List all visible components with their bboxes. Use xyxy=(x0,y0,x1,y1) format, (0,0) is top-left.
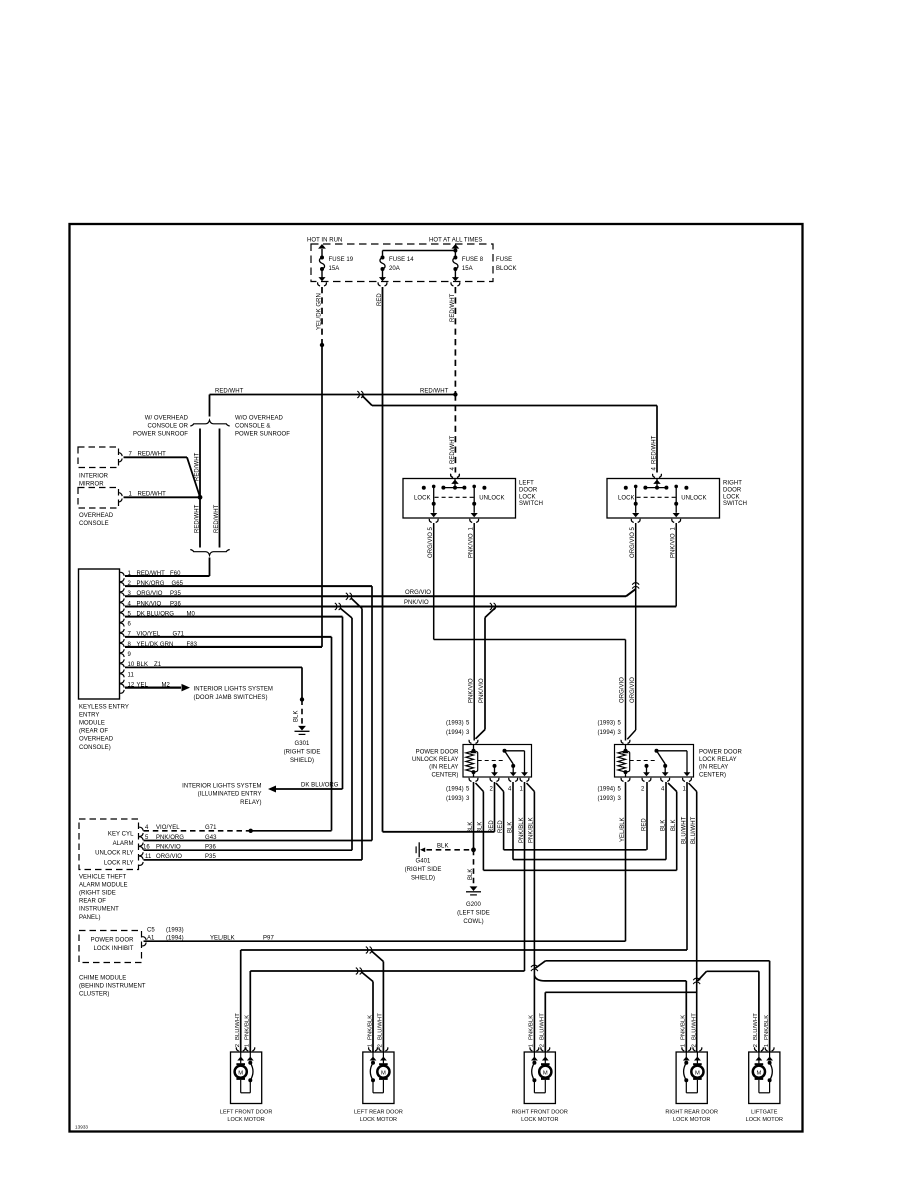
svg-text:(1994): (1994) xyxy=(166,936,184,942)
splice node on YEL/DK GRN xyxy=(320,343,324,347)
svg-text:PNK/VIO: PNK/VIO xyxy=(404,600,429,606)
svg-text:LOCK MOTOR: LOCK MOTOR xyxy=(746,1117,783,1123)
wire BLK lock pin4 branch xyxy=(668,783,677,792)
svg-text:M: M xyxy=(756,1070,761,1076)
wire keyless pin2 PNK/ORG to theft alarm pin5 xyxy=(125,585,372,587)
wire BLK lock pin4 xyxy=(665,782,667,860)
svg-text:ALARM MODULE: ALARM MODULE xyxy=(79,883,128,889)
relay pin 2 contact xyxy=(493,764,497,768)
switch common bar xyxy=(443,487,464,489)
svg-text:BLU/WHT: BLU/WHT xyxy=(691,816,697,844)
wire RED/WHT branch to right door lock switch xyxy=(362,396,372,406)
svg-text:G301: G301 xyxy=(295,741,310,747)
svg-text:1: 1 xyxy=(367,1044,373,1047)
svg-text:16: 16 xyxy=(143,844,150,850)
splice node BLK ground xyxy=(471,847,476,852)
wire RED/WHT horizontal to consoles xyxy=(210,394,456,396)
wire BLU/WHT lock pin1 branch to right rear motor xyxy=(689,783,697,792)
svg-text:PNK/BLK: PNK/BLK xyxy=(245,1015,251,1040)
svg-text:BLK: BLK xyxy=(478,822,484,834)
wire BLK dashed to G200 xyxy=(473,850,475,886)
motor entry connectors xyxy=(530,1047,532,1051)
svg-text:ORG/VIO: ORG/VIO xyxy=(630,677,636,703)
wire RED/WHT right branch xyxy=(219,429,221,548)
svg-text:SWITCH: SWITCH xyxy=(519,501,543,507)
svg-text:RELAY): RELAY) xyxy=(240,800,262,806)
left door lock switch box xyxy=(403,479,516,519)
svg-text:A1: A1 xyxy=(147,936,155,942)
svg-text:(IN RELAY: (IN RELAY xyxy=(429,765,458,771)
svg-text:PNK/BLK: PNK/BLK xyxy=(367,1015,373,1040)
svg-text:PNK/BLK: PNK/BLK xyxy=(519,817,525,843)
svg-text:(1993): (1993) xyxy=(598,721,616,727)
svg-text:G401: G401 xyxy=(416,859,431,865)
svg-text:CONSOLE OR: CONSOLE OR xyxy=(147,424,188,430)
svg-text:SHIELD): SHIELD) xyxy=(411,876,435,882)
splice node VIO/YEL xyxy=(249,829,253,833)
svg-text:KEY CYL: KEY CYL xyxy=(108,831,134,837)
svg-text:(1994): (1994) xyxy=(446,787,464,793)
wire RED/WHT left branch xyxy=(199,429,201,548)
wire BLU/WHT bus left (y950) xyxy=(241,949,687,951)
svg-text:MIRROR: MIRROR xyxy=(79,482,104,488)
svg-text:P97: P97 xyxy=(263,936,274,942)
keyless pin 4 xyxy=(120,603,124,606)
wire RED from fuse 14 down to relay feed xyxy=(382,287,384,832)
ground G200 xyxy=(470,886,478,891)
svg-text:W/O OVERHEAD: W/O OVERHEAD xyxy=(235,416,284,422)
svg-text:LOCK RELAY: LOCK RELAY xyxy=(699,757,737,763)
keyless pin 11 xyxy=(120,674,124,677)
svg-text:LOCK RLY: LOCK RLY xyxy=(104,860,134,866)
theft alarm pin 11 ORG/VIO xyxy=(139,856,143,859)
wire RED/WHT single above brace xyxy=(209,395,211,417)
svg-text:RED/WHT: RED/WHT xyxy=(215,388,244,394)
arrow hot at all times xyxy=(454,249,456,251)
svg-text:ORG/VIO: ORG/VIO xyxy=(405,590,431,596)
svg-text:FUSE 19: FUSE 19 xyxy=(329,257,354,263)
svg-text:(1993): (1993) xyxy=(446,721,464,727)
svg-text:BLK: BLK xyxy=(468,869,474,881)
svg-text:(RIGHT SIDE: (RIGHT SIDE xyxy=(284,750,321,756)
wire BLK lower bus to lock relay pin 4 branch xyxy=(483,869,676,871)
svg-text:11: 11 xyxy=(145,854,152,860)
hop on RED/WHT xyxy=(357,391,359,398)
branch PNK/VIO to unlock relay coil xyxy=(485,608,495,618)
keyless pin 3 xyxy=(120,593,124,596)
svg-text:INTERIOR LIGHTS SYSTEM: INTERIOR LIGHTS SYSTEM xyxy=(194,686,273,692)
svg-text:SWITCH: SWITCH xyxy=(723,501,747,507)
splice node BLK xyxy=(300,697,304,701)
svg-text:PANEL): PANEL) xyxy=(79,915,101,921)
fuse block box xyxy=(311,244,493,282)
svg-text:C5: C5 xyxy=(147,927,155,933)
wire BLK dashed to ground xyxy=(301,700,303,726)
svg-text:VEHICLE THEFT: VEHICLE THEFT xyxy=(79,875,126,881)
svg-text:LOCK INHIBIT: LOCK INHIBIT xyxy=(94,946,134,952)
svg-text:M: M xyxy=(381,1070,386,1076)
relay NO contact wire xyxy=(505,750,525,752)
svg-text:RED/WHT: RED/WHT xyxy=(194,504,200,533)
switch outer contacts xyxy=(624,486,628,490)
right door lock switch box xyxy=(607,479,720,519)
left switch wires entering xyxy=(451,474,453,478)
svg-text:M: M xyxy=(695,1070,700,1076)
keyless entry module box xyxy=(79,569,120,699)
wire RED unlock branch to lock relay pin2 xyxy=(496,783,504,792)
svg-text:RED/WHT: RED/WHT xyxy=(450,293,456,322)
svg-text:G200: G200 xyxy=(466,902,481,908)
vehicle theft alarm module box xyxy=(79,819,139,870)
ORG/VIO bend into lock relay xyxy=(627,730,635,739)
svg-text:LOCK: LOCK xyxy=(723,494,740,500)
svg-text:PNK/VIO: PNK/VIO xyxy=(479,678,485,703)
motor entry arrows xyxy=(372,1052,374,1061)
svg-text:ALARM: ALARM xyxy=(113,841,134,847)
svg-text:2: 2 xyxy=(235,1044,241,1047)
keyless pin 2 xyxy=(120,583,124,586)
svg-text:RED/WHT: RED/WHT xyxy=(651,435,657,464)
left front door box xyxy=(231,1052,262,1104)
relay bottom connectors xyxy=(469,778,471,782)
switch common bar xyxy=(645,487,666,489)
svg-text:BLU/WHT: BLU/WHT xyxy=(540,1013,546,1040)
keyless pin 10 xyxy=(120,664,124,667)
relay coil xyxy=(473,745,475,751)
svg-text:LEFT: LEFT xyxy=(519,481,534,487)
svg-text:LOCK MOTOR: LOCK MOTOR xyxy=(360,1117,397,1123)
motor switch contact arc xyxy=(248,1061,252,1065)
switch output connectors xyxy=(631,519,633,523)
svg-text:RED/WHT: RED/WHT xyxy=(450,435,456,464)
relay dashed actuator link xyxy=(478,760,505,762)
svg-text:1: 1 xyxy=(529,1044,535,1047)
motor switch contact arc xyxy=(684,1061,688,1065)
motor internal return wire xyxy=(769,1080,771,1093)
switch outer contacts xyxy=(422,486,426,490)
svg-text:(1993): (1993) xyxy=(598,796,616,802)
svg-text:(RIGHT SIDE: (RIGHT SIDE xyxy=(405,867,442,873)
wire BLK unlock pin4 xyxy=(512,782,514,860)
svg-text:FUSE 8: FUSE 8 xyxy=(462,257,484,263)
switch unlock arm xyxy=(472,485,476,489)
svg-text:(LEFT SIDE: (LEFT SIDE xyxy=(457,911,490,917)
svg-text:CONSOLE): CONSOLE) xyxy=(79,745,111,751)
svg-text:BLU/WHT: BLU/WHT xyxy=(378,1013,384,1040)
svg-text:1: 1 xyxy=(764,1044,770,1047)
motor entry connectors xyxy=(682,1047,684,1051)
wire PNK/BLK bus left (y971) xyxy=(250,970,524,972)
branch PNK/BLK to left rear motor xyxy=(362,972,374,982)
svg-text:POWER DOOR: POWER DOOR xyxy=(91,938,134,944)
branch BLU/WHT to left rear motor xyxy=(372,951,384,962)
wire keyless pin12 YEL arrow to interior lights system xyxy=(125,687,181,689)
svg-text:LIFTGATE: LIFTGATE xyxy=(751,1110,778,1116)
svg-text:HOT IN RUN: HOT IN RUN xyxy=(307,238,342,244)
svg-text:RIGHT FRONT DOOR: RIGHT FRONT DOOR xyxy=(512,1110,568,1116)
svg-text:POWER SUNROOF: POWER SUNROOF xyxy=(235,432,290,438)
svg-text:BLK: BLK xyxy=(660,820,666,832)
svg-text:UNLOCK: UNLOCK xyxy=(479,496,504,502)
wire YEL/DK GRN from fuse 19 (dashed) xyxy=(321,287,323,345)
svg-text:PNK/ORG: PNK/ORG xyxy=(156,835,184,841)
svg-text:(REAR OF: (REAR OF xyxy=(79,729,108,735)
svg-text:COWL): COWL) xyxy=(463,919,483,925)
switch lock arm xyxy=(634,485,638,489)
motor entry arrows xyxy=(533,1052,535,1061)
svg-text:RED/WHT: RED/WHT xyxy=(214,504,220,533)
svg-text:UNLOCK: UNLOCK xyxy=(681,496,706,502)
svg-text:BLK: BLK xyxy=(294,711,300,723)
svg-text:(IN RELAY: (IN RELAY xyxy=(699,765,728,771)
fuse FUSE 14 20A xyxy=(381,256,385,260)
svg-text:M: M xyxy=(543,1070,548,1076)
wire BLU/WHT right front to right rear (y992.3) xyxy=(545,991,696,993)
svg-text:PNK/BLK: PNK/BLK xyxy=(681,1015,687,1040)
wire RED feed bus to unlock relay pin 2 xyxy=(383,831,495,833)
switch output connectors xyxy=(429,519,431,523)
right front door box xyxy=(524,1052,555,1104)
svg-text:CENTER): CENTER) xyxy=(431,772,458,778)
motor entry arrows xyxy=(758,1052,760,1061)
wire PNK/BLK branch to liftgate (y960.8) xyxy=(535,961,545,969)
svg-text:CHIME MODULE: CHIME MODULE xyxy=(79,976,126,982)
motor entry arrows xyxy=(685,1052,687,1061)
brace top xyxy=(190,420,229,426)
wire keyless pin10 BLK to ground G301 xyxy=(125,666,302,668)
svg-text:2: 2 xyxy=(692,1044,698,1047)
svg-text:MODULE: MODULE xyxy=(79,721,105,727)
brace bottom xyxy=(190,550,229,556)
svg-text:P36: P36 xyxy=(205,844,216,850)
svg-text:(ILLUMINATED ENTRY: (ILLUMINATED ENTRY xyxy=(198,792,262,798)
wire PNK/BLK branch to right rear motor (y980.9) xyxy=(534,976,545,981)
relay dashed actuator link xyxy=(630,760,657,762)
svg-text:LEFT FRONT DOOR: LEFT FRONT DOOR xyxy=(220,1110,273,1116)
svg-text:20A: 20A xyxy=(389,266,400,272)
wire BLU/WHT lock pin1 to left bus xyxy=(686,782,688,950)
theft alarm pin 5 PNK/ORG xyxy=(139,837,143,840)
svg-text:BLOCK: BLOCK xyxy=(496,266,517,272)
svg-text:UNLOCK RLY: UNLOCK RLY xyxy=(95,851,133,857)
svg-text:RED: RED xyxy=(641,818,647,831)
svg-text:CLUSTER): CLUSTER) xyxy=(79,992,109,998)
svg-text:KEYLESS ENTRY: KEYLESS ENTRY xyxy=(79,705,129,711)
motor internal return wire xyxy=(372,1080,374,1093)
liftgate box xyxy=(749,1052,780,1104)
svg-text:FUSE 14: FUSE 14 xyxy=(389,257,414,263)
relay bottom connectors xyxy=(621,778,623,782)
switch lock arm xyxy=(432,485,436,489)
svg-text:LOCK: LOCK xyxy=(519,494,536,500)
svg-text:(DOOR JAMB SWITCHES): (DOOR JAMB SWITCHES) xyxy=(194,695,268,701)
relay box xyxy=(615,745,694,778)
relay NO contact wire xyxy=(657,750,688,752)
wire keyless pin4 PNK/VIO xyxy=(125,605,676,607)
motor switch contact arc xyxy=(768,1061,772,1065)
wire fuse14 to fuse8 top xyxy=(382,251,384,258)
svg-text:BLU/WHT: BLU/WHT xyxy=(235,1013,241,1040)
svg-text:(1993): (1993) xyxy=(166,927,184,933)
chime module box xyxy=(79,931,142,963)
relay pin 2 contact xyxy=(645,764,649,768)
motor switch contact arc xyxy=(371,1061,375,1065)
svg-text:M: M xyxy=(238,1070,243,1076)
svg-text:RED/WHT: RED/WHT xyxy=(194,452,200,481)
left rear door box xyxy=(363,1052,394,1104)
interior mirror box xyxy=(78,447,119,468)
svg-text:POWER SUNROOF: POWER SUNROOF xyxy=(133,432,188,438)
branch ORG/VIO to theft alarm pin11 xyxy=(351,598,362,609)
svg-text:P35: P35 xyxy=(205,854,216,860)
wire RED/WHT dashed down to left door lock switch xyxy=(454,395,456,473)
wire RED/WHT from fuse 8 (dashed) xyxy=(454,287,456,395)
svg-text:UNLOCK RELAY: UNLOCK RELAY xyxy=(412,757,459,763)
motor switch contact arc xyxy=(532,1061,536,1065)
motor M xyxy=(544,1061,546,1064)
switch dashed link xyxy=(637,496,677,498)
svg-text:15A: 15A xyxy=(462,266,473,272)
svg-text:G43: G43 xyxy=(205,835,217,841)
motor M xyxy=(382,1061,384,1064)
svg-text:BLK: BLK xyxy=(437,844,449,850)
hop PNK/VIO right xyxy=(490,603,492,610)
wire keyless pin8 YEL/DK GRN from fuse 19 xyxy=(125,646,322,648)
motor M xyxy=(758,1061,760,1064)
svg-text:LOCK MOTOR: LOCK MOTOR xyxy=(673,1117,710,1123)
svg-text:(RIGHT SIDE: (RIGHT SIDE xyxy=(79,891,116,897)
svg-text:RED: RED xyxy=(489,820,495,833)
svg-text:PNK/VIO: PNK/VIO xyxy=(468,678,474,703)
keyless pin 6 xyxy=(120,623,124,626)
svg-text:CONSOLE: CONSOLE xyxy=(79,521,109,527)
wire BLK unlock branch xyxy=(476,783,484,792)
svg-text:PNK/BLK: PNK/BLK xyxy=(529,1015,535,1040)
keyless pin 8 xyxy=(120,643,124,646)
svg-text:BLU/WHT: BLU/WHT xyxy=(692,1013,698,1040)
svg-text:DOOR: DOOR xyxy=(519,487,538,493)
svg-text:LOCK MOTOR: LOCK MOTOR xyxy=(521,1117,558,1123)
svg-text:1: 1 xyxy=(681,1044,687,1047)
switch dashed link xyxy=(435,496,475,498)
motor internal return wire xyxy=(685,1080,687,1093)
theft alarm pin 16 PNK/VIO xyxy=(139,846,143,849)
svg-text:4: 4 xyxy=(450,467,456,471)
svg-text:2: 2 xyxy=(378,1044,384,1047)
relay coil xyxy=(625,745,627,751)
ground G401 xyxy=(420,848,425,853)
branch PNK/VIO to theft alarm pin16 xyxy=(340,608,352,618)
wire keyless pin7 VIO/YEL to theft alarm pin4 xyxy=(125,636,332,638)
svg-text:YEL/DK GRN: YEL/DK GRN xyxy=(316,293,322,330)
svg-text:BLK: BLK xyxy=(507,822,513,834)
relay switch contact xyxy=(503,749,507,753)
motor entry connectors xyxy=(369,1047,371,1051)
svg-text:REAR OF: REAR OF xyxy=(79,899,106,905)
wire BLK unlock pin5/3 to ground splice xyxy=(473,782,475,850)
svg-text:LOCK MOTOR: LOCK MOTOR xyxy=(227,1117,264,1123)
arrow hot in run xyxy=(321,249,323,258)
wire BLU/WHT branch to liftgate (y971.3) xyxy=(698,971,707,981)
svg-text:RED: RED xyxy=(377,293,383,306)
motor entry connectors xyxy=(236,1047,238,1051)
ORG/VIO ramp to right switch riser xyxy=(626,589,636,596)
border frame xyxy=(70,224,803,1132)
svg-text:POWER DOOR: POWER DOOR xyxy=(699,750,742,756)
svg-text:RED: RED xyxy=(498,820,504,833)
wire risers to left front motor xyxy=(240,950,242,1052)
svg-text:2: 2 xyxy=(753,1044,759,1047)
svg-text:DK BLU/ORG: DK BLU/ORG xyxy=(301,782,339,788)
svg-text:RIGHT: RIGHT xyxy=(723,481,742,487)
svg-text:DOOR: DOOR xyxy=(723,487,742,493)
wire YEL/BLK lock pin5/3 to chime module xyxy=(625,782,627,941)
overhead console box xyxy=(78,488,119,509)
relay box xyxy=(463,745,532,778)
wire VIO/YEL dashed theft pin4 xyxy=(144,830,251,832)
svg-text:PNK/BLK: PNK/BLK xyxy=(529,817,535,843)
svg-text:15A: 15A xyxy=(329,266,340,272)
svg-text:POWER DOOR: POWER DOOR xyxy=(416,750,459,756)
svg-text:W/ OVERHEAD: W/ OVERHEAD xyxy=(145,416,189,422)
svg-text:BLU/WHT: BLU/WHT xyxy=(681,816,687,844)
fuse FUSE 19 15A xyxy=(320,256,324,260)
svg-text:(BEHIND INSTRUMENT: (BEHIND INSTRUMENT xyxy=(79,984,146,990)
motor M xyxy=(696,1061,698,1064)
svg-text:LOCK: LOCK xyxy=(618,496,635,502)
svg-text:CONSOLE &: CONSOLE & xyxy=(235,424,270,430)
wire YEL/DK GRN solid down to keyless pin 8 xyxy=(321,345,323,647)
wire keyless pin3 ORG/VIO xyxy=(125,595,626,597)
svg-text:1: 1 xyxy=(245,1044,251,1047)
keyless pin 1 xyxy=(120,572,124,575)
svg-text:PNK/VIO: PNK/VIO xyxy=(156,844,181,850)
svg-text:YEL/BLK: YEL/BLK xyxy=(210,936,235,942)
svg-text:(1994): (1994) xyxy=(598,787,616,793)
svg-text:BLU/WHT: BLU/WHT xyxy=(753,1013,759,1040)
svg-text:INTERIOR LIGHTS SYSTEM: INTERIOR LIGHTS SYSTEM xyxy=(182,783,261,789)
svg-text:RED/WHT: RED/WHT xyxy=(420,388,449,394)
motor internal return wire xyxy=(249,1080,251,1093)
svg-text:OVERHEAD: OVERHEAD xyxy=(79,737,114,743)
wire PNK/BLK unlock pin1 branch to right front motor xyxy=(527,783,535,792)
svg-text:OVERHEAD: OVERHEAD xyxy=(79,513,114,519)
keyless pin 5 xyxy=(120,613,124,616)
svg-text:2: 2 xyxy=(540,1044,546,1047)
svg-text:INSTRUMENT: INSTRUMENT xyxy=(79,907,119,913)
switch pin 4 entry arrow xyxy=(454,479,456,488)
theft alarm pin 4 VIO/YEL xyxy=(139,827,143,830)
motor M xyxy=(240,1061,242,1064)
switch pin 4 entry arrow xyxy=(656,479,658,488)
motor entry arrows xyxy=(240,1052,242,1061)
ground G301 xyxy=(298,726,306,731)
svg-text:11: 11 xyxy=(128,672,135,678)
wire RED/WHT below brace to keyless pin 1 xyxy=(209,558,211,577)
svg-text:CENTER): CENTER) xyxy=(699,772,726,778)
wire RED lock pin2 xyxy=(646,782,648,850)
keyless pin 7 xyxy=(120,633,124,636)
svg-text:(1994): (1994) xyxy=(598,730,616,736)
motor internal return wire xyxy=(533,1080,535,1093)
node RED/WHT splice xyxy=(453,392,457,396)
svg-text:INTERIOR: INTERIOR xyxy=(79,474,109,480)
svg-text:ORG/VIO: ORG/VIO xyxy=(156,854,182,860)
svg-text:(1993): (1993) xyxy=(446,796,464,802)
wire keyless pin1 RED/WHT xyxy=(125,575,210,577)
keyless pin 9 xyxy=(120,654,124,657)
relay switch contact xyxy=(655,749,659,753)
